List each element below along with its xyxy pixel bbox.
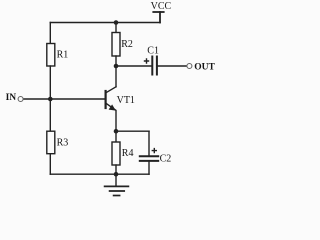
wire emitter vertical xyxy=(115,111,117,132)
wire IN node to R3 xyxy=(49,99,51,131)
wire C2 bottom to rail xyxy=(148,162,150,174)
wire collector vertical xyxy=(115,66,117,87)
wire R3 bottom to bottom rail xyxy=(49,154,51,175)
VCC terminal xyxy=(159,12,161,23)
svg-text:VT1: VT1 xyxy=(117,95,135,106)
svg-text:VCC: VCC xyxy=(151,1,172,12)
terminal IN circle xyxy=(18,97,23,102)
svg-text:IN: IN xyxy=(6,93,17,103)
wire collector node to C1 xyxy=(116,65,151,67)
wire R2 bottom to collector node xyxy=(115,56,117,66)
wire top rail xyxy=(50,22,160,24)
transistor VT1 collector diagonal xyxy=(106,87,116,93)
svg-text:C2: C2 xyxy=(160,154,172,165)
terminal OUT circle xyxy=(187,64,192,69)
svg-text:R3: R3 xyxy=(57,138,69,149)
wire C1 to OUT xyxy=(158,65,187,67)
polarity plus C1 xyxy=(144,58,149,63)
transistor VT1 emitter arrowhead xyxy=(109,104,116,110)
resistor R1 xyxy=(47,44,55,67)
wire emitter node to C2 branch xyxy=(116,130,149,132)
capacitor C2 plates xyxy=(140,155,158,157)
node emitter junction xyxy=(114,129,119,134)
resistor R3 xyxy=(47,131,55,154)
capacitor C1 plates xyxy=(151,57,153,75)
node IN junction xyxy=(48,97,53,102)
node top R2 junction xyxy=(114,20,119,25)
wire R4 top xyxy=(115,131,117,142)
svg-text:R1: R1 xyxy=(57,50,69,61)
wire R2 top xyxy=(115,23,117,33)
resistor R4 xyxy=(112,142,120,165)
wire IN horizontal to base xyxy=(23,98,105,100)
svg-text:R4: R4 xyxy=(122,148,134,159)
svg-text:C1: C1 xyxy=(147,46,159,57)
svg-text:OUT: OUT xyxy=(194,62,215,72)
wire bottom rail xyxy=(50,173,149,175)
transistor VT1 emitter diagonal xyxy=(106,104,115,110)
svg-text:R2: R2 xyxy=(121,39,133,50)
resistor R2 xyxy=(112,33,120,57)
node ground junction xyxy=(114,172,119,177)
transistor VT1 base bar xyxy=(104,91,106,108)
polarity plus C2 xyxy=(152,148,157,153)
node collector junction xyxy=(114,64,119,69)
wire R1 bottom to IN node xyxy=(49,66,51,99)
ground xyxy=(115,174,117,186)
wire left vertical R1 top xyxy=(49,23,51,44)
wire R4 bottom xyxy=(115,165,117,174)
